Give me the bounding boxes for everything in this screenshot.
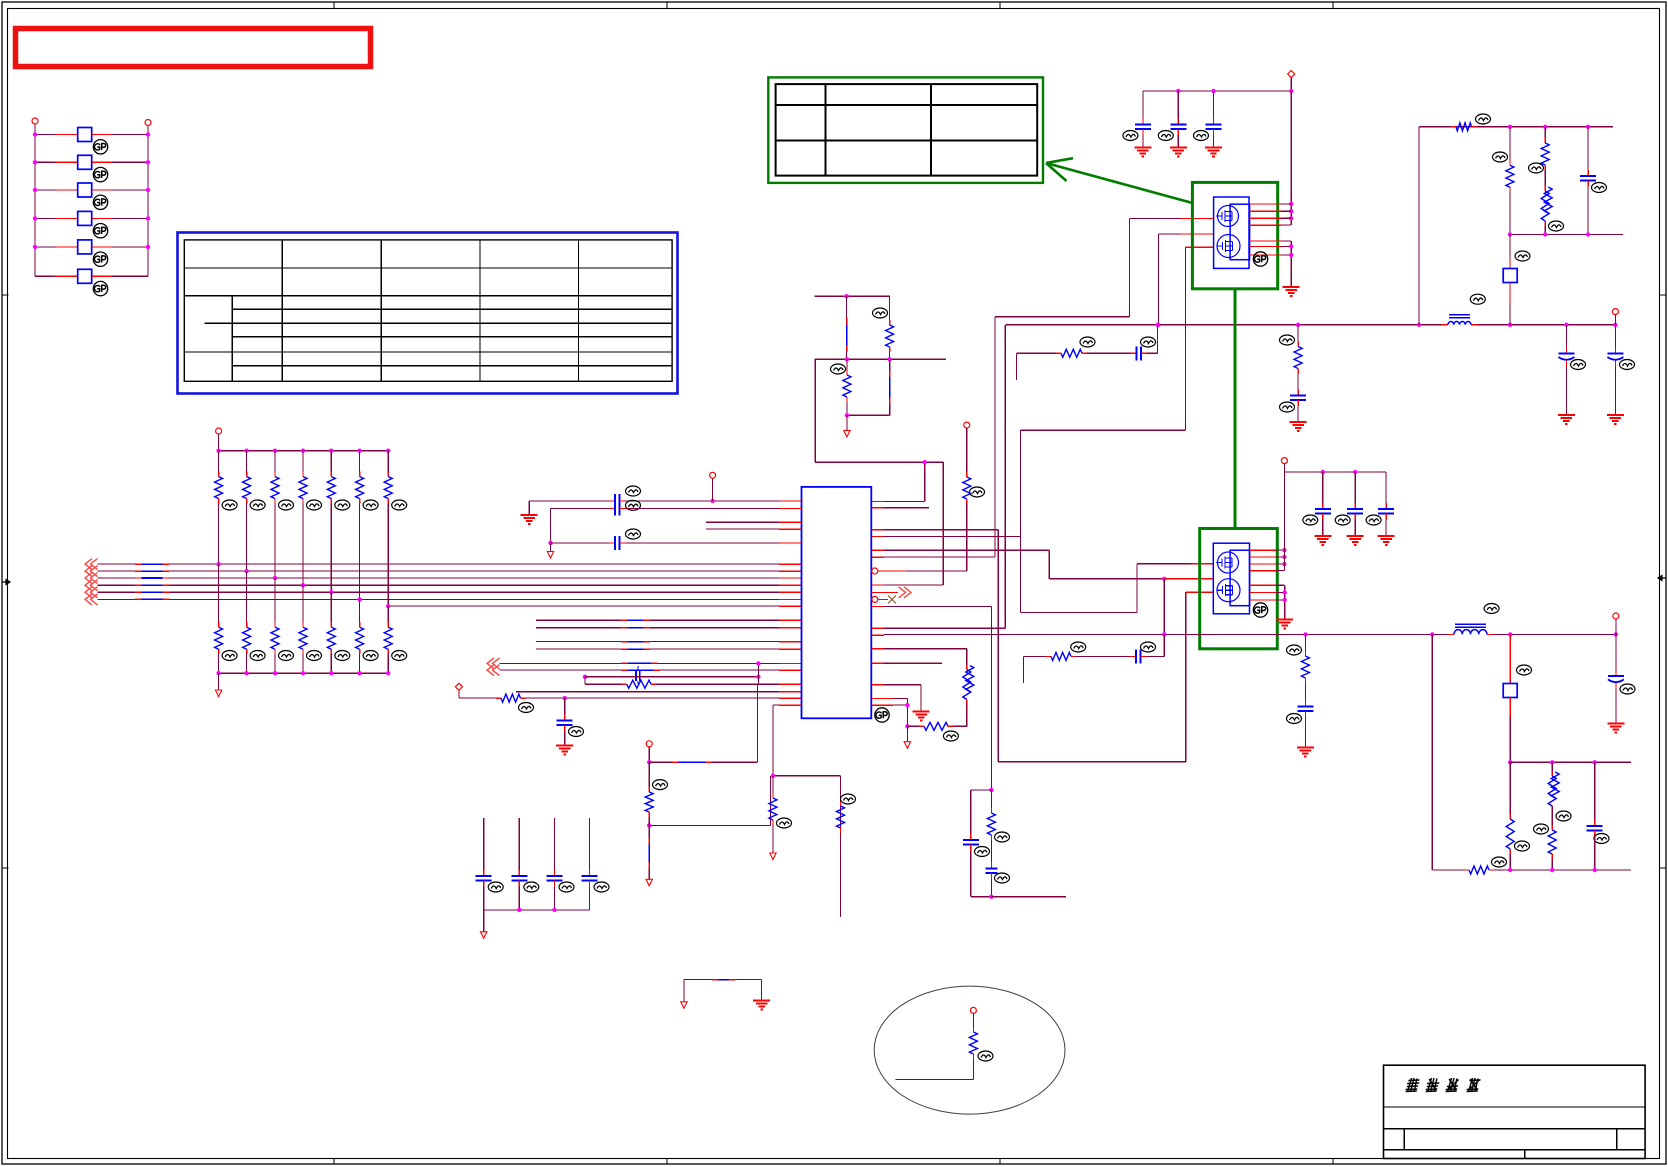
divider top line <box>815 294 890 298</box>
compensation column x967 (double R) <box>963 649 974 727</box>
border right arrow marker <box>1658 576 1666 581</box>
lower pack pin2 drop to switch node <box>1162 579 1166 637</box>
lower pack right pins (drain) <box>1250 550 1285 571</box>
outC cap column <box>1587 762 1609 870</box>
vin2 cap C_w3 <box>1366 472 1395 545</box>
jumper bank left bus terminal <box>32 118 38 124</box>
upper pack GP stamp <box>1253 252 1267 266</box>
jumper bank right bus wire <box>147 126 149 277</box>
T2 tie line <box>647 747 758 765</box>
pull-up resistor RA2 <box>243 451 266 571</box>
border left arrow marker <box>2 580 10 585</box>
U1 output chevron pin (y592) <box>871 587 911 598</box>
U1 no-connect pin (y599) <box>872 595 896 603</box>
lower node resistor R_sw <box>1287 634 1314 756</box>
decoupling cap C_t1 to ground <box>556 698 583 754</box>
divider net-tie column A <box>846 296 848 359</box>
resistor bank top rail terminal <box>216 428 222 434</box>
staple ground <box>753 1000 770 1009</box>
junction dots jumper row 2 <box>33 160 150 164</box>
ac cap C_x2 <box>511 818 539 910</box>
stub line row (y677) <box>583 675 761 679</box>
vin2 cap C_w1 <box>1303 472 1332 545</box>
vin2 terminal <box>1281 458 1287 464</box>
divider bottom link <box>845 413 890 417</box>
vin bus dots <box>1176 89 1293 93</box>
link to x766 <box>649 776 770 826</box>
line1 junction dot and terminal <box>710 472 716 503</box>
input line B (chevron to U1 pin) <box>487 665 802 676</box>
U1 right pin stub (y508) <box>871 507 929 509</box>
left chain line3 with cap C_c <box>548 529 801 550</box>
bus line 7 (partial, to U1) <box>388 605 801 607</box>
ac cap C_x1 <box>476 818 504 910</box>
upper pack pin3 wire <box>1020 247 1213 430</box>
green link between packs <box>1234 289 1237 529</box>
pull-down resistor RB7 <box>384 606 407 673</box>
vin diamond terminal <box>1288 71 1295 78</box>
fb bottom stub <box>989 895 1066 899</box>
fb divider top <box>989 606 993 792</box>
staple power arrow <box>681 1002 687 1009</box>
upper switch node wire <box>871 325 1442 628</box>
upper feed resistor-cap to ground <box>1280 325 1307 431</box>
lower MOSFET pack Q2 internals <box>1213 543 1249 614</box>
compensation column x967 (upper R) <box>963 422 985 571</box>
sense resistor R_s <box>905 722 967 741</box>
left chain line1 with cap C_a <box>529 486 801 515</box>
pull-down resistor RB5 <box>327 592 350 673</box>
upper out cap C_o1 <box>1558 325 1586 424</box>
resistor R_dm column <box>837 794 856 833</box>
U1 left pin wire (y705) to R column <box>773 705 802 776</box>
left chain power arrow <box>547 543 553 558</box>
left loop vertical <box>1418 127 1420 325</box>
circle pin link (y571) <box>906 570 967 572</box>
bus3 right segment <box>1510 760 1631 764</box>
pull-up resistor RA5 <box>327 451 350 593</box>
resistor bank top rail junction dots <box>216 449 390 453</box>
vin cap C_v3 <box>1194 91 1223 157</box>
note ellipse <box>874 986 1065 1114</box>
vertical link x758 <box>756 661 760 684</box>
lower switch node wire <box>871 633 1448 636</box>
upper MOSFET pack Q1 internals <box>1214 197 1250 268</box>
upper pack right pins (drain) <box>1249 204 1291 225</box>
jumper J1 (GP) <box>35 128 148 155</box>
upper switch line cont <box>1477 324 1615 326</box>
lower pack pin3 red stub <box>1186 591 1214 593</box>
pull-down resistor RB4 <box>299 585 322 673</box>
company name text <box>1405 1078 1481 1092</box>
bus line 6 (left connector to U1) <box>85 594 802 605</box>
upper pack source pins to ground <box>1249 241 1300 296</box>
bus line 2 (left connector to U1) <box>85 566 802 577</box>
wire U1(y557) to upper pack pin1 <box>871 218 1213 557</box>
power arrow below tie <box>646 872 652 886</box>
U1 left pin stubs (522/530) <box>706 522 801 529</box>
pull-down resistor RB3 <box>271 578 294 673</box>
colB resistor+varistor <box>1529 127 1564 235</box>
input line A (chevron to U1 pin) <box>487 658 802 669</box>
lower out terminal column <box>1607 613 1635 733</box>
upper snubber RC <box>1016 325 1157 380</box>
pull-up resistor RA7 <box>384 451 407 606</box>
U1 pin (y705) dot <box>871 703 909 707</box>
upper out terminal column <box>1607 309 1635 425</box>
vertical link x758 lower <box>757 684 759 762</box>
vin2 left drop to lower pack <box>1283 472 1285 571</box>
jumper J2 (GP) <box>35 155 148 182</box>
vin right drop to upper pack <box>1290 91 1292 225</box>
diamond terminal T1 <box>455 683 462 690</box>
net-tie line 3 to U1 <box>536 641 801 643</box>
net-tie line 2 to U1 <box>536 627 801 629</box>
ac rail power arrow <box>481 910 487 938</box>
CL current-limit square lower <box>1503 634 1531 764</box>
fb parallel RC branch <box>985 790 1009 897</box>
jumper J4 (GP) <box>35 211 148 238</box>
wire to U1 pin (y585) <box>871 462 943 585</box>
jumper J3 (GP) <box>35 183 148 210</box>
pull-up resistor RA1 <box>215 451 238 564</box>
wire U1 pin (y501) riser <box>871 460 927 501</box>
lower switch line cont <box>1493 632 1618 636</box>
U1 pin (y699) corner <box>871 699 907 727</box>
terminal T2 <box>646 741 652 747</box>
red annotation box <box>16 29 371 67</box>
junction dots jumper row 1 <box>33 132 150 136</box>
pull-down resistor RB1 <box>215 564 238 673</box>
U1 ground pin (y685) <box>871 685 929 721</box>
divider resistor R_d2 <box>831 359 851 415</box>
left chain ground <box>521 515 538 524</box>
upper output inductor L1 <box>1442 294 1485 325</box>
U1 pin(y663) stub <box>871 662 942 664</box>
lower output inductor L2 <box>1448 604 1499 635</box>
colA resistor <box>1493 127 1514 235</box>
bus junction dots <box>216 562 390 608</box>
IC U1 GP stamp <box>875 708 889 722</box>
top bus resistor R_t <box>1451 114 1491 131</box>
wire U1(y536) to lower pack pin1 <box>871 430 1213 612</box>
jumper J5 (GP) <box>35 240 148 267</box>
blue table inner grid <box>184 240 672 381</box>
upper pack pin2 drop <box>1156 234 1213 327</box>
divider net-tie column B <box>889 359 891 415</box>
bottom return rail <box>1432 857 1631 874</box>
ac cap C_x4 <box>582 818 610 910</box>
vin cap C_v1 <box>1123 91 1152 157</box>
junction dots jumper row 4 <box>33 216 150 220</box>
ellipse resistor R_e <box>896 1007 993 1079</box>
colC capacitor <box>1580 127 1606 235</box>
upper pack right pin dots <box>1289 202 1293 221</box>
vin bus <box>1143 78 1291 91</box>
resistor R_dn to arrow <box>769 776 792 860</box>
bus line 3 (left connector to U1) <box>85 573 802 584</box>
outB varistor column <box>1534 762 1572 870</box>
divider power arrow <box>844 415 850 437</box>
jumper J6 (GP) <box>35 269 148 296</box>
vin cap C_v2 <box>1158 91 1187 157</box>
U1 output circle pin (y571) <box>872 568 906 574</box>
vin2 bus <box>1284 464 1386 475</box>
green callout table border <box>768 77 1043 182</box>
divider left drop wire <box>815 359 943 462</box>
mid bus2 wire <box>1508 232 1623 236</box>
green table inner grid <box>776 84 1038 176</box>
lower pack GP stamp <box>1253 603 1267 617</box>
resistor bank bottom rail wire <box>219 672 389 674</box>
IC U1 body <box>802 487 872 718</box>
junction dots jumper row 5 <box>33 245 150 249</box>
jumper bank left bus wire <box>34 124 36 276</box>
CL current-limit square upper <box>1503 235 1530 325</box>
upper MOSFET pack green box <box>1192 182 1277 288</box>
jumper bank right bus terminal <box>145 120 151 126</box>
net-tie line 1 to U1 <box>536 619 801 621</box>
resistor bank bottom power symbol <box>215 673 221 696</box>
outA resistor column <box>1506 762 1529 870</box>
lower pack right dots <box>1282 548 1286 566</box>
pull-up resistor RA3 <box>271 451 294 578</box>
ac cap C_x3 <box>547 818 575 910</box>
green callout arrow <box>1046 158 1193 203</box>
tie staple link <box>684 980 762 1002</box>
lower MOSFET pack green box <box>1200 529 1278 649</box>
resistor bank bottom rail dots <box>216 671 390 675</box>
top bus wire <box>1419 126 1613 128</box>
blue revision table border <box>178 233 678 394</box>
pull-up resistor RA4 <box>299 451 322 586</box>
net-tie below R_m1 <box>648 825 650 872</box>
U1 pin(y649) to feedback rail <box>871 648 967 650</box>
pull-down resistor RB6 <box>356 599 379 673</box>
junction dot on T1 line <box>563 696 567 700</box>
feedback rail wire <box>871 605 991 607</box>
upper switch node dots <box>1155 323 1617 327</box>
vin2 cap C_w2 <box>1335 472 1364 545</box>
wire U1(y529) to lower pack pin3 <box>871 530 1186 762</box>
bus line 1 (left connector to U1) <box>85 559 802 570</box>
divider resistor R_d1 <box>873 296 894 359</box>
fb parallel cap branch <box>963 790 992 897</box>
resistor R_m1 <box>645 762 667 827</box>
divider mid rail <box>815 357 946 361</box>
left chain line2 with cap C_b <box>551 502 802 543</box>
pull-down resistor RB2 <box>243 571 266 673</box>
ac cap bank rail <box>484 908 590 912</box>
lower out left loop <box>1431 634 1433 870</box>
title block frame <box>1384 1065 1646 1158</box>
pull-up resistor RA6 <box>356 451 379 600</box>
line from T1 with resistor R_t1 <box>459 690 802 712</box>
resistor bank top rail wire <box>219 434 389 451</box>
junction dots jumper row 3 <box>33 188 150 192</box>
lower switch dots <box>1162 632 1434 636</box>
top bus dots <box>1508 125 1591 129</box>
line to U1 (y692) <box>516 691 802 693</box>
wire U1(y550) to lower pack pin2 <box>871 550 1213 581</box>
inter-line capacitor C_mid <box>636 666 640 684</box>
bus line 4 (left connector to U1) <box>85 580 802 591</box>
net-tie line 4 to U1 <box>536 648 801 650</box>
power arrow below dot <box>904 726 910 748</box>
U1 left pin chain (y705-776) <box>771 774 841 918</box>
lower snubber RC <box>1024 634 1165 683</box>
bus line 5 (left connector to U1) <box>85 587 802 598</box>
lower pack source pins to ground <box>1250 585 1294 628</box>
line with resistor R_low (y684) <box>585 677 802 688</box>
